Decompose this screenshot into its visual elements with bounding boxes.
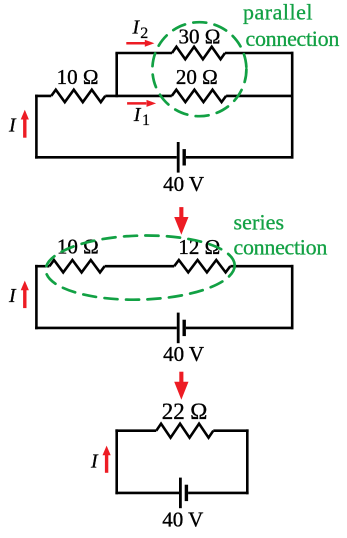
resistor 30 ohm (top circuit) <box>172 47 225 59</box>
svg-text:connection: connection <box>234 235 328 260</box>
current arrow I (bottom circuit, red up) <box>103 446 111 473</box>
dashed green circle around parallel combination <box>152 22 246 116</box>
battery short plate (top circuit) <box>182 149 185 165</box>
wire battery to bottom-right (bottom circuit) <box>188 492 249 495</box>
battery short plate (middle circuit) <box>182 320 185 336</box>
svg-text:10 Ω: 10 Ω <box>57 234 99 258</box>
svg-text:22 Ω: 22 Ω <box>162 399 208 424</box>
wire right vertical (top circuit) <box>291 52 294 159</box>
svg-text:10 Ω: 10 Ω <box>57 65 99 89</box>
red down arrow 1 (simplification step) <box>174 207 188 235</box>
wire top-left segment before 22-ohm (bottom circuit) <box>115 429 156 432</box>
svg-text:2: 2 <box>140 25 148 42</box>
wire bottom-left to battery (top circuit) <box>35 156 177 159</box>
svg-text:connection: connection <box>246 26 340 51</box>
wire between 10-ohm and 20-ohm with junction node <box>105 95 172 98</box>
battery long plate (top circuit) <box>177 142 180 173</box>
wire battery to bottom-right corner (top circuit) <box>186 156 294 159</box>
svg-text:parallel: parallel <box>243 0 313 25</box>
svg-text:I: I <box>8 115 17 137</box>
wire bottom-left to battery (bottom circuit) <box>115 492 179 495</box>
wire top-left segment before 10-ohm (middle circuit) <box>35 265 49 268</box>
wire top branch right of 30-ohm <box>225 52 294 55</box>
resistor 12 ohm (middle circuit) <box>174 260 230 272</box>
battery long plate (middle circuit) <box>177 313 180 344</box>
wire left vertical (middle circuit) <box>35 265 38 329</box>
wire top-right segment after 22-ohm (bottom circuit) <box>213 429 248 432</box>
svg-text:I: I <box>133 104 142 126</box>
svg-text:I: I <box>90 451 99 473</box>
svg-text:40 V: 40 V <box>163 342 204 366</box>
resistor 20 ohm (top circuit) <box>172 90 226 102</box>
resistor 10 ohm (top circuit) <box>51 90 105 102</box>
wire left vertical (bottom circuit) <box>115 429 118 494</box>
current arrow I1 (red right) <box>127 100 156 107</box>
wire battery to bottom-right (middle circuit) <box>186 327 294 330</box>
resistor 22 ohm (bottom circuit) <box>156 424 213 438</box>
wire main right segment after 20-ohm <box>226 95 293 98</box>
dashed green ellipse around series combination <box>45 233 236 302</box>
current arrow I (top circuit, red up) <box>21 110 29 138</box>
wire bottom-left to battery (middle circuit) <box>35 327 177 330</box>
wire left vertical (top circuit) <box>35 95 38 159</box>
wire main left segment before 10-ohm resistor <box>35 95 51 98</box>
battery short plate (bottom circuit) <box>185 485 188 501</box>
svg-text:1: 1 <box>142 112 150 129</box>
svg-text:I: I <box>132 17 141 39</box>
resistor 10 ohm (middle circuit) <box>49 260 104 272</box>
wire riser to parallel branch <box>115 53 118 97</box>
svg-text:I: I <box>8 285 17 307</box>
svg-text:40 V: 40 V <box>162 508 203 532</box>
current arrow I (middle circuit, red up) <box>21 281 29 309</box>
red down arrow 2 (simplification step) <box>174 372 188 400</box>
wire top-right segment after 12-ohm (middle circuit) <box>230 265 293 268</box>
svg-text:20 Ω: 20 Ω <box>176 65 218 89</box>
wire between 10-ohm and 12-ohm (middle circuit) <box>105 265 175 268</box>
svg-text:series: series <box>234 210 285 235</box>
current arrow I2 (red right) <box>126 40 154 47</box>
wire top branch left of 30-ohm <box>115 52 172 55</box>
wire right vertical (middle circuit) <box>291 265 294 329</box>
svg-text:40 V: 40 V <box>163 172 204 196</box>
battery long plate (bottom circuit) <box>179 478 182 509</box>
svg-text:30 Ω: 30 Ω <box>178 24 220 48</box>
wire right vertical (bottom circuit) <box>246 429 249 494</box>
